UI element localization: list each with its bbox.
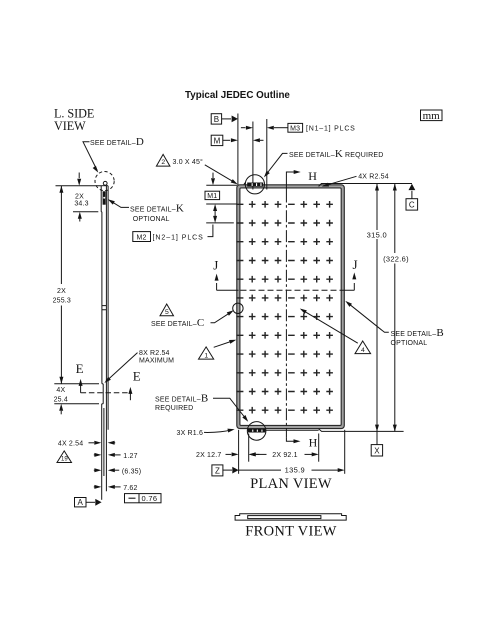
- dim 135.9 line with datum Z arrowhead: [232, 467, 238, 474]
- chamfer leader: [205, 165, 236, 183]
- svg-text:5: 5: [165, 309, 169, 316]
- top-right extension line with lip: [319, 184, 412, 187]
- svg-text:J: J: [352, 257, 357, 272]
- svg-text:3X R1.6: 3X R1.6: [177, 430, 204, 437]
- M2 note elbow: [208, 225, 213, 237]
- svg-text:SEE DETAIL–D: SEE DETAIL–D: [90, 136, 144, 148]
- section E-E dashed line: [81, 392, 131, 394]
- section J right arrow: [353, 283, 355, 290]
- svg-text:E: E: [76, 361, 84, 376]
- svg-text:25.4: 25.4: [54, 396, 68, 403]
- dim 2X 34.3 lower arrow: [79, 218, 81, 222]
- dim M box: [211, 135, 223, 145]
- svg-text:H: H: [308, 169, 317, 183]
- svg-text:SEE DETAIL–B: SEE DETAIL–B: [391, 327, 444, 339]
- front view body: [235, 514, 346, 520]
- left bottom extension line: [238, 430, 240, 474]
- side view lower inner line: [103, 408, 105, 476]
- M2 box: [133, 232, 151, 242]
- detail-C circle on left edge: [233, 303, 243, 313]
- plan view body outline: [238, 186, 342, 427]
- leader detail-K: [265, 153, 287, 175]
- dim 315.0 line: [376, 184, 378, 445]
- svg-text:[N1–1] PLCS: [N1–1] PLCS: [306, 126, 356, 133]
- dim M1 top extension: [206, 184, 237, 186]
- datum X box: [371, 445, 382, 456]
- note triangle 19: [57, 451, 72, 463]
- svg-text:SEE DETAIL–B: SEE DETAIL–B: [155, 393, 208, 405]
- 92.1 right extension line: [318, 434, 320, 462]
- dim M1 upper arrow: [212, 173, 214, 178]
- datum C box: [406, 199, 418, 210]
- bottom pin strip line: [248, 429, 319, 431]
- dim (322.6) line: [394, 184, 396, 432]
- svg-text:Typical JEDEC Outline: Typical JEDEC Outline: [185, 90, 290, 101]
- center column dashes: [288, 204, 295, 410]
- M3 box: [288, 123, 303, 132]
- dim M3 arrows: [241, 127, 246, 129]
- dim M2 pitch double arrow: [214, 209, 216, 219]
- datum C triangle: [409, 184, 416, 190]
- section H top arrow: [286, 172, 294, 191]
- svg-text:J: J: [213, 257, 218, 272]
- svg-text:1: 1: [204, 352, 208, 359]
- vertical dashed centerline: [285, 191, 287, 438]
- chamfer note triangle 2: [156, 154, 170, 166]
- side view top contact pin (black): [103, 191, 106, 204]
- dim 2X 34.3 upper arrow: [78, 173, 80, 179]
- svg-text:0.76: 0.76: [142, 494, 158, 503]
- svg-text:(6.35): (6.35): [122, 469, 141, 476]
- svg-text:7.62: 7.62: [123, 485, 137, 492]
- side view left edge lower: [101, 404, 103, 500]
- svg-text:135.9: 135.9: [285, 466, 305, 475]
- side view right edge outer: [107, 186, 109, 430]
- svg-text:SEE DETAIL–C: SEE DETAIL–C: [151, 317, 204, 329]
- svg-text:315.0: 315.0: [367, 231, 387, 240]
- svg-text:1.27: 1.27: [123, 453, 137, 460]
- svg-text:M2: M2: [137, 235, 147, 242]
- pin grid crosses: [249, 201, 333, 414]
- leader triangle 4: [302, 310, 358, 344]
- pin row 2 extension: [206, 222, 234, 224]
- detail circle top (pins): [247, 183, 263, 187]
- side view key notch: [102, 306, 106, 310]
- svg-text:4X: 4X: [56, 387, 65, 394]
- dim (6.35): [94, 469, 95, 471]
- extension line L3 (pin col 2): [266, 119, 268, 190]
- leader 3X R1.6: [204, 430, 233, 433]
- leader detail-C: [211, 311, 233, 322]
- svg-text:2X 92.1: 2X 92.1: [272, 452, 297, 459]
- dim 1.27: [94, 454, 95, 456]
- M1 box: [205, 191, 220, 199]
- svg-text:8X R2.54: 8X R2.54: [139, 350, 170, 357]
- pin row 1 extension: [206, 203, 237, 205]
- svg-text:OPTIONAL: OPTIONAL: [391, 340, 428, 347]
- flatness control frame: [125, 494, 162, 503]
- svg-text:REQUIRED: REQUIRED: [155, 405, 193, 412]
- svg-text:4X R2.54: 4X R2.54: [358, 173, 389, 180]
- leader to detail-K: [110, 200, 130, 207]
- side view body top: [101, 185, 108, 187]
- svg-text:SEE DETAIL–K REQUIRED: SEE DETAIL–K REQUIRED: [289, 148, 383, 160]
- svg-text:M3: M3: [290, 125, 300, 132]
- left edge row ticks: [236, 204, 243, 410]
- side view left edge step: [100, 211, 103, 213]
- dim 4X 25.4 upper extension: [54, 383, 99, 385]
- datum A leader: [86, 501, 95, 503]
- dim 7.62: [94, 486, 95, 488]
- svg-text:4: 4: [361, 347, 365, 354]
- side view right edge inner: [105, 186, 107, 492]
- dim 2X 34.3 lower extension line: [73, 211, 98, 213]
- side view left edge upper: [100, 186, 102, 212]
- svg-text:[N2–1] PLCS: [N2–1] PLCS: [153, 235, 204, 242]
- dim 4X 25.4 lower extension: [54, 403, 99, 405]
- bottom-right extension line with lip: [319, 429, 404, 432]
- pin grid: [236, 201, 333, 414]
- side view E notch upper tick: [102, 383, 103, 385]
- svg-text:(322.6): (322.6): [383, 254, 409, 263]
- datum C stem: [411, 191, 413, 199]
- svg-text:FRONT VIEW: FRONT VIEW: [245, 524, 336, 540]
- front view connector tongue: [248, 516, 321, 519]
- svg-text:E: E: [133, 369, 141, 384]
- datum B box: [211, 114, 221, 124]
- dim M arrows: [223, 139, 230, 141]
- side view left edge middle: [101, 212, 103, 384]
- dim 2X 92.1: [256, 453, 267, 455]
- extension line L2 (pin col 1): [252, 122, 254, 190]
- 135.9 right extension line: [344, 430, 346, 474]
- svg-text:X: X: [374, 446, 380, 455]
- leader detail-B optional: [348, 303, 389, 333]
- note triangle 4: [355, 341, 371, 354]
- extension line L1 (left edge): [237, 114, 239, 186]
- leader triangle 1: [214, 340, 235, 347]
- note triangle 5: [160, 304, 174, 316]
- svg-text:OPTIONAL: OPTIONAL: [133, 216, 170, 223]
- dim 2X 255.3 line: [60, 186, 62, 384]
- svg-text:255.3: 255.3: [53, 298, 71, 305]
- svg-text:2: 2: [161, 159, 165, 166]
- svg-text:B: B: [214, 115, 219, 124]
- 92.1 left extension line: [248, 434, 250, 462]
- leader to detail-D: [83, 142, 97, 171]
- mm units box: [421, 110, 443, 121]
- note triangle 1: [199, 347, 214, 359]
- svg-text:H: H: [309, 435, 318, 449]
- svg-text:19: 19: [61, 457, 68, 463]
- leader 8X R2.54: [106, 353, 137, 382]
- side view E notch lower tick: [102, 403, 104, 405]
- detail-D dashed circle: [95, 172, 114, 191]
- pin head circle: [103, 181, 107, 185]
- svg-text:2X: 2X: [75, 193, 84, 200]
- svg-text:M: M: [214, 136, 221, 145]
- svg-text:MAXIMUM: MAXIMUM: [139, 358, 174, 365]
- dim 2X 34.3 top extension line: [56, 185, 102, 187]
- section E-E right arrow: [129, 391, 131, 400]
- datum A box: [75, 498, 87, 507]
- svg-text:4X 2.54: 4X 2.54: [58, 441, 83, 448]
- leader 4X R2.54: [324, 176, 357, 186]
- svg-text:VIEW: VIEW: [54, 119, 86, 133]
- datum Z box: [212, 465, 223, 476]
- svg-text:A: A: [78, 498, 84, 507]
- svg-text:M1: M1: [207, 193, 217, 200]
- dim 4X 25.4 lower arrow: [60, 411, 62, 415]
- svg-text:2X 12.7: 2X 12.7: [196, 452, 221, 459]
- section E-E left arrow: [80, 383, 82, 393]
- leader detail-B required: [213, 398, 247, 420]
- section J left arrow: [216, 283, 218, 290]
- svg-text:mm: mm: [423, 110, 441, 122]
- svg-text:34.3: 34.3: [74, 201, 88, 208]
- svg-text:SEE DETAIL–K: SEE DETAIL–K: [130, 203, 184, 215]
- side view E notch edge: [102, 384, 104, 404]
- datum Z leader: [223, 469, 232, 471]
- svg-text:3.0 X 45°: 3.0 X 45°: [173, 158, 204, 166]
- detail circle bottom (pins): [248, 429, 266, 433]
- section J-J dashed line: [217, 289, 355, 291]
- svg-text:C: C: [409, 200, 415, 209]
- svg-text:PLAN VIEW: PLAN VIEW: [250, 476, 332, 492]
- section H bottom arrow: [286, 438, 294, 442]
- datum B leader: [222, 118, 231, 120]
- svg-text:2X: 2X: [57, 288, 66, 295]
- svg-text:Z: Z: [215, 466, 220, 475]
